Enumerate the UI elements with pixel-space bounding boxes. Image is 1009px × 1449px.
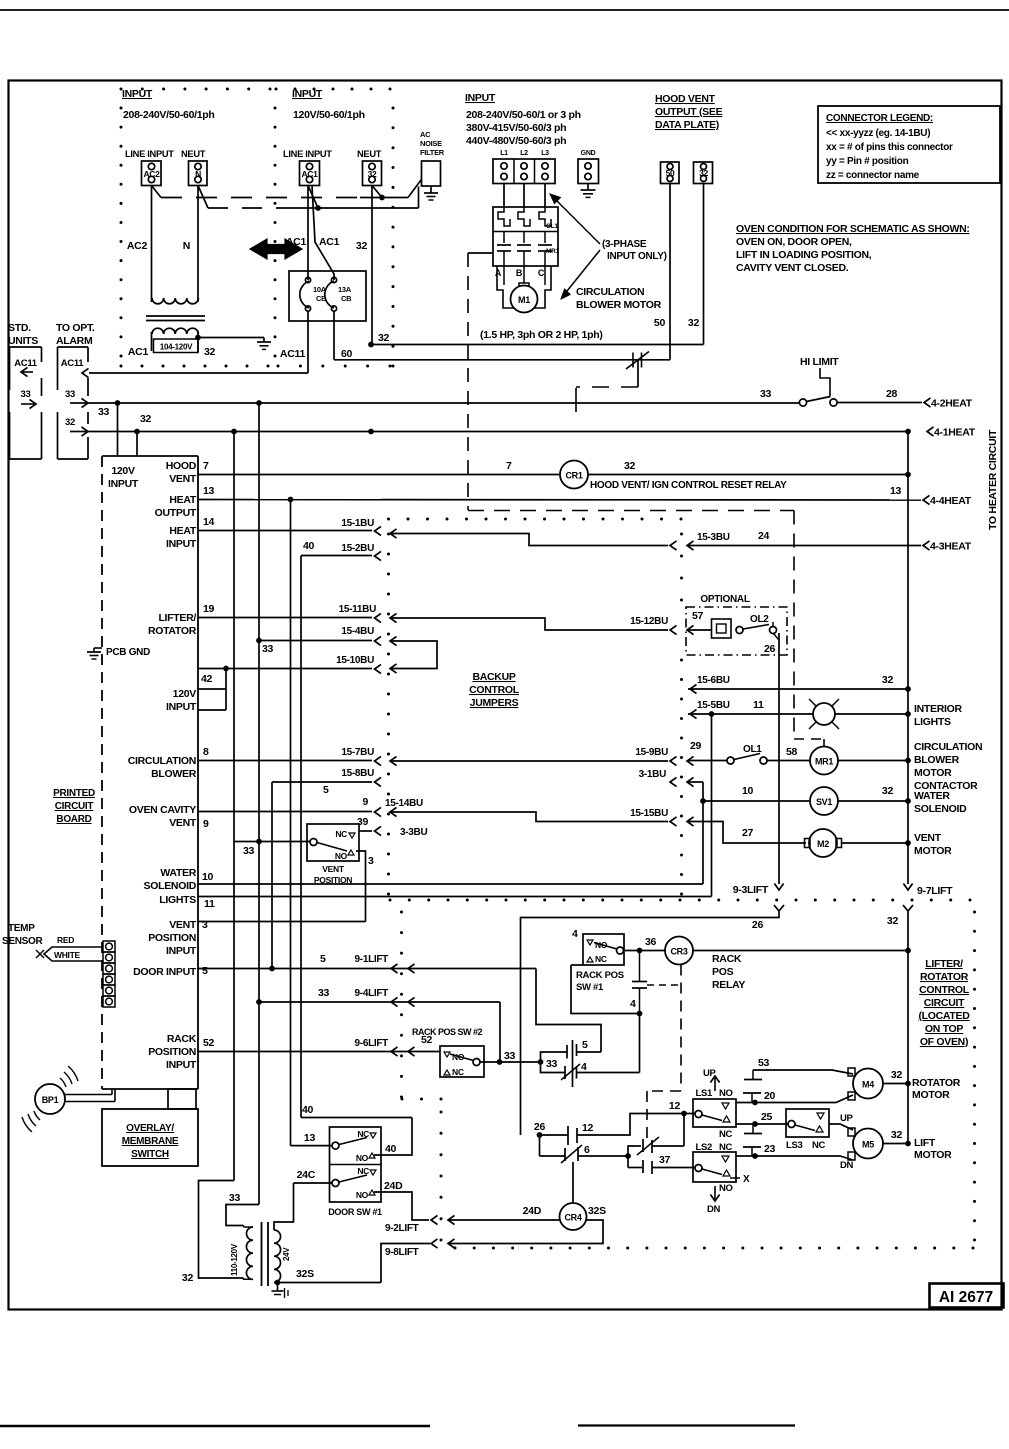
node 32-neutral on row A [379, 195, 385, 201]
wire 15-5BU lamp row [688, 713, 813, 715]
svg-text:33: 33 [243, 845, 255, 857]
arrow AC11 std [21, 367, 28, 376]
svg-text:CIRCUIT: CIRCUIT [924, 997, 965, 1009]
svg-text:50: 50 [666, 168, 675, 178]
svg-text:40: 40 [303, 540, 315, 552]
svg-text:M5: M5 [862, 1140, 874, 1150]
hood vent field-wiring break [632, 353, 634, 368]
svg-text:3: 3 [368, 855, 374, 867]
svg-text:DOOR SW #1: DOOR SW #1 [328, 1207, 382, 1217]
svg-text:4: 4 [572, 928, 578, 940]
svg-text:24V: 24V [282, 1247, 291, 1261]
transformer T1 primary 208-240V winding [152, 298, 198, 304]
svg-text:N: N [183, 240, 190, 252]
svg-text:L2: L2 [520, 150, 528, 157]
svg-text:BLOWER: BLOWER [914, 754, 960, 766]
svg-text:GND: GND [581, 150, 596, 157]
vent position switch box [307, 824, 359, 861]
wire 53 to M4 [753, 1070, 853, 1074]
cam 53 [744, 1079, 762, 1081]
node lamp lights drop [709, 711, 715, 717]
svg-text:SENSOR: SENSOR [2, 936, 44, 947]
svg-text:INPUT: INPUT [166, 701, 197, 713]
wire 32 to T2 primary bottom [199, 1181, 244, 1279]
svg-text:3-1BU: 3-1BU [639, 769, 666, 780]
svg-text:NC: NC [335, 829, 347, 839]
wire 15-3BU to 4-3HEAT [688, 545, 921, 547]
svg-text:NEUT: NEUT [357, 149, 382, 159]
svg-text:15-14BU: 15-14BU [385, 798, 423, 809]
svg-text:32: 32 [204, 346, 216, 358]
svg-text:32: 32 [887, 915, 899, 927]
wire 120V input stub b [198, 709, 226, 711]
arrowhead 15-2BU [375, 551, 382, 560]
arrowhead AC11 into alarm bracket [82, 368, 89, 377]
svg-text:20: 20 [764, 1090, 776, 1102]
svg-text:UP: UP [840, 1113, 854, 1124]
page top rule [0, 9, 1009, 11]
svg-text:RACK POS: RACK POS [576, 970, 624, 981]
wire LS1 common drop [683, 1114, 685, 1147]
wire 9-1LIFT to cam 5 [536, 969, 601, 1053]
svg-text:5: 5 [323, 784, 329, 796]
svg-text:L3: L3 [541, 150, 549, 157]
svg-text:FILTER: FILTER [420, 148, 445, 157]
svg-text:110-120V: 110-120V [230, 1243, 239, 1276]
svg-text:15-11BU: 15-11BU [339, 604, 376, 615]
wire A to motor [503, 266, 505, 285]
svg-text:AC1: AC1 [301, 169, 318, 179]
wire MR1 to bus [838, 760, 908, 762]
svg-text:OL2: OL2 [750, 614, 769, 625]
svg-text:AI 2677: AI 2677 [939, 1289, 993, 1306]
hi-limit actuator zigzag [820, 368, 830, 396]
svg-text:HEAT: HEAT [169, 525, 196, 537]
svg-text:LIGHTS: LIGHTS [914, 716, 951, 728]
svg-text:32: 32 [688, 317, 700, 329]
node 33 vent position [256, 839, 262, 845]
wire L2 to contactor [523, 184, 525, 208]
svg-text:HOOD: HOOD [166, 460, 197, 472]
dotted border backup control jumpers box [387, 518, 390, 521]
bottom rule right [578, 1424, 795, 1426]
wire 9-4LIFT drop to rack switch 2 [499, 1002, 501, 1062]
svg-text:37: 37 [659, 1154, 671, 1166]
svg-text:WATER: WATER [160, 867, 196, 879]
wire 15-8BU vertical to door input [271, 782, 273, 969]
cam 6 slash contact [539, 1135, 541, 1156]
svg-text:208-240V/50-60/1ph: 208-240V/50-60/1ph [123, 109, 215, 121]
svg-text:HOOD VENT: HOOD VENT [655, 93, 716, 105]
svg-text:DOOR INPUT: DOOR INPUT [133, 966, 197, 978]
svg-text:6: 6 [584, 1144, 590, 1156]
svg-text:X: X [743, 1174, 750, 1185]
svg-text:LIFTER/: LIFTER/ [925, 958, 963, 970]
jumper 15-11BU to 15-12BU [390, 613, 397, 622]
svg-text:9: 9 [203, 818, 209, 830]
svg-text:52: 52 [203, 1037, 215, 1049]
svg-text:A: A [495, 268, 502, 278]
wire M2 to bus [842, 842, 909, 844]
cam 37 contact [627, 1156, 629, 1168]
wire lifter/rotator 19 row [198, 617, 372, 619]
arrowhead 15-3BU pair [670, 541, 677, 550]
svg-text:SV1: SV1 [816, 797, 832, 807]
svg-text:HI LIMIT: HI LIMIT [800, 356, 839, 368]
svg-text:15-1BU: 15-1BU [341, 518, 374, 529]
arrowhead 15-4BU [375, 636, 382, 645]
svg-text:AC2: AC2 [143, 169, 160, 179]
svg-text:OL1: OL1 [546, 223, 558, 230]
svg-text:33: 33 [229, 1192, 241, 1204]
arrowhead 3-3BU [375, 826, 382, 835]
svg-text:60: 60 [341, 348, 353, 360]
wire vent position common [234, 841, 310, 843]
arrowhead 9-7LIFT down [903, 884, 912, 891]
svg-text:32: 32 [368, 169, 377, 179]
node 25 [752, 1121, 758, 1127]
jumper 15-4BU to 15-10BU [390, 636, 397, 645]
wire 10A CB to AC11 alarm line [307, 311, 309, 373]
svg-text:N: N [195, 169, 201, 179]
svg-text:B: B [516, 268, 523, 278]
arrowhead 15-14BU [375, 807, 382, 816]
svg-text:39: 39 [357, 816, 369, 828]
svg-text:104-120V: 104-120V [160, 343, 193, 352]
arrowhead 15-10BU [375, 664, 382, 673]
node 12 LS1 [681, 1111, 687, 1117]
svg-text:OVEN ON, DOOR OPEN,: OVEN ON, DOOR OPEN, [736, 236, 852, 248]
svg-text:BOARD: BOARD [56, 814, 91, 825]
wire CR4 coil drop [572, 1162, 574, 1203]
relay CR1 [560, 461, 588, 489]
OPTIONAL dash-dot box [686, 607, 787, 655]
node 36 [637, 948, 643, 954]
wire 9-4LIFT row [259, 1001, 500, 1003]
node 6 junction [625, 1153, 631, 1159]
wire 15-6BU row [688, 688, 908, 690]
svg-text:INTERIOR: INTERIOR [914, 703, 962, 715]
wire 4 drop to slash cam [639, 1014, 641, 1073]
relay coil MR1 [810, 747, 838, 775]
node 33 to PCB [115, 400, 121, 406]
right bus vertical upper [907, 432, 909, 885]
transformer T1 secondary 104-120V winding [152, 328, 198, 334]
svg-text:33: 33 [262, 643, 274, 655]
svg-text:NC: NC [719, 1129, 733, 1140]
wire 24D from door NO2 [374, 1192, 429, 1220]
rack pos switch 1 box [583, 934, 624, 965]
interior lights lamp [813, 703, 835, 725]
svg-text:40: 40 [385, 1143, 397, 1155]
svg-text:CR3: CR3 [670, 947, 687, 957]
rack pos sw1 contact [617, 947, 624, 954]
svg-text:12: 12 [669, 1100, 681, 1112]
wire pin7 to CR1 [198, 474, 560, 476]
PCB ground symbol [94, 647, 102, 649]
arrow up LS1 [714, 1078, 716, 1091]
svg-text:xx = # of pins this connector: xx = # of pins this connector [826, 142, 953, 153]
contactor MR1 contacts [503, 232, 505, 244]
cam 5 contact [541, 1052, 568, 1062]
svg-text:13: 13 [304, 1132, 316, 1144]
arrowhead 9-3LIFT down [774, 884, 783, 891]
svg-text:15-3BU: 15-3BU [697, 532, 730, 543]
node 32 at CB out [368, 342, 374, 348]
node 33 bus to backup rows [256, 400, 262, 406]
drawing number box AI 2677 [930, 1284, 1004, 1308]
svg-text:33: 33 [760, 388, 772, 400]
svg-text:INPUT: INPUT [465, 92, 496, 104]
svg-text:120V: 120V [111, 465, 135, 477]
transformer T1 core [146, 315, 205, 317]
svg-text:15-7BU: 15-7BU [341, 747, 374, 758]
svg-text:ROTATOR: ROTATOR [148, 625, 197, 637]
svg-text:MOTOR: MOTOR [912, 1089, 950, 1101]
wire 33 vertical long drop [258, 403, 260, 1205]
svg-text:L1: L1 [500, 150, 508, 157]
node 42 junction [223, 666, 229, 672]
jumper 8 row through backup box [390, 756, 397, 765]
arrow 32 alarm out [70, 431, 86, 433]
svg-text:15-6BU: 15-6BU [697, 675, 730, 686]
node 32 bus to transformer drop [231, 429, 237, 435]
svg-text:CIRCULATION: CIRCULATION [914, 741, 982, 753]
rack pos sw1 NO [587, 940, 593, 945]
svg-text:13A: 13A [338, 285, 352, 294]
arrowhead 15-11BU [375, 613, 382, 622]
svg-text:INPUT ONLY): INPUT ONLY) [607, 251, 667, 262]
cam 4 slash contact [541, 1062, 566, 1073]
wire 23 to M5 [755, 1156, 853, 1160]
svg-text:5: 5 [582, 1039, 588, 1051]
wire L3 to contactor [544, 184, 546, 208]
OL2 heater element [712, 619, 732, 638]
wire C to motor [544, 266, 546, 285]
wire N to transformer primary [197, 186, 199, 299]
arrowhead 4-3HEAT [923, 541, 930, 550]
svg-text:INPUT: INPUT [166, 1059, 197, 1071]
wire 3-1BU stub [688, 781, 703, 783]
svg-text:58: 58 [786, 746, 798, 758]
node AC1 on row B [315, 205, 321, 211]
node 32 bus neutral feed [368, 429, 374, 435]
svg-text:120V/50-60/1ph: 120V/50-60/1ph [293, 109, 365, 121]
svg-text:120V: 120V [173, 688, 197, 700]
terminal block L1 L2 L3 [493, 159, 555, 184]
svg-text:23: 23 [764, 1143, 776, 1155]
node M2 bus [905, 840, 911, 846]
svg-text:MOTOR: MOTOR [914, 767, 952, 779]
wire LS2 NC to M5 dn [736, 1155, 755, 1157]
arrow to motor [563, 250, 600, 296]
svg-text:9-3LIFT: 9-3LIFT [733, 884, 769, 896]
node 15-6BU bus [905, 686, 911, 692]
svg-text:zz = connector name: zz = connector name [826, 170, 920, 181]
cam 12b slash contact [628, 1146, 641, 1156]
wire neutral crossover row B (dashed) [198, 186, 208, 209]
wire 15-4BU row [259, 640, 372, 642]
svg-text:UNITS: UNITS [8, 335, 38, 347]
svg-text:CONTROL: CONTROL [469, 684, 520, 696]
limit switch LS3 box [786, 1109, 829, 1137]
svg-text:MOTOR: MOTOR [914, 845, 952, 857]
door switch 1 box [330, 1127, 382, 1202]
wire B to motor [523, 266, 525, 283]
svg-text:VENT: VENT [914, 832, 942, 844]
wire AC1 diag to row B [308, 186, 318, 209]
svg-text:DATA PLATE): DATA PLATE) [655, 119, 719, 131]
arrowhead 15-15BU pair [670, 817, 677, 826]
svg-text:NO: NO [335, 851, 348, 861]
svg-text:NEUT: NEUT [181, 149, 206, 159]
svg-text:CONNECTOR LEGEND:: CONNECTOR LEGEND: [826, 113, 933, 124]
svg-text:DN: DN [707, 1204, 721, 1215]
svg-text:OUTPUT (SEE: OUTPUT (SEE [655, 106, 723, 118]
motor M1 cradle [497, 266, 551, 308]
bracket STD UNITS [9, 347, 11, 390]
svg-text:AC1: AC1 [128, 346, 149, 358]
svg-text:RED: RED [57, 935, 74, 945]
svg-text:INPUT: INPUT [292, 88, 323, 100]
svg-text:SOLENOID: SOLENOID [144, 880, 197, 892]
svg-text:4-3HEAT: 4-3HEAT [930, 541, 972, 553]
wire 15-8BU row [272, 781, 372, 783]
wire AC1 to 13A CB [312, 186, 334, 281]
svg-text:CIRCUIT: CIRCUIT [55, 801, 94, 812]
overload OL1 elements [498, 207, 510, 226]
arrowhead 15-6BU [690, 684, 697, 693]
svg-text:MEMBRANE: MEMBRANE [122, 1136, 179, 1147]
dashed link cam4 to CR3 [647, 984, 679, 986]
rack pos sw2 NO [444, 1052, 450, 1057]
jumper 15-14BU to 15-15BU [390, 807, 397, 816]
svg-text:VENT: VENT [322, 864, 345, 874]
svg-text:RELAY: RELAY [712, 979, 745, 991]
svg-text:POSITION: POSITION [148, 1046, 196, 1058]
svg-text:WHITE: WHITE [54, 950, 81, 960]
T2 core [261, 1222, 263, 1286]
wire 32 bus row [88, 431, 908, 433]
wire sw2 to 33 junctions [480, 1061, 541, 1063]
wire 33 bus row [88, 402, 799, 404]
svg-text:9-6LIFT: 9-6LIFT [355, 1038, 389, 1049]
arrowhead 15-7BU [375, 756, 382, 765]
svg-text:INPUT: INPUT [166, 538, 197, 550]
bracket TO OPT ALARM [57, 347, 59, 390]
svg-text:OPTIONAL: OPTIONAL [700, 594, 749, 605]
wire BP1 to PCB [65, 1094, 112, 1096]
node 20 [752, 1100, 758, 1106]
svg-text:OL1: OL1 [743, 744, 762, 755]
svg-text:11: 11 [204, 898, 215, 910]
wire 15-15BU to vent motor M2 [688, 822, 806, 844]
wire M5 to bus [883, 1143, 908, 1145]
svg-text:RACK: RACK [167, 1033, 197, 1045]
wire door input 5 row [198, 968, 536, 970]
node 33 cam [538, 1059, 544, 1065]
svg-text:9-7LIFT: 9-7LIFT [917, 885, 953, 897]
svg-text:CR4: CR4 [564, 1213, 581, 1223]
connector 9-8LIFT [448, 1239, 455, 1248]
arrowhead 15-9BU pair [670, 756, 677, 765]
svg-text:36: 36 [645, 936, 657, 948]
wire vent position NO to pin3 drop [356, 851, 366, 922]
node sw2 out [497, 1059, 503, 1065]
svg-text:M4: M4 [862, 1080, 874, 1090]
svg-text:9-4LIFT: 9-4LIFT [355, 988, 389, 999]
wire lights 11 row [198, 896, 712, 898]
node M5 bus [905, 1141, 911, 1147]
svg-text:INPUT: INPUT [122, 88, 153, 100]
svg-text:LS1: LS1 [695, 1088, 713, 1099]
svg-text:4-4HEAT: 4-4HEAT [930, 495, 972, 507]
node 32 to PCB [134, 429, 140, 435]
wire 13 to door sw common [291, 1145, 333, 1147]
arrowhead 15-1BU [375, 526, 382, 535]
svg-text:10: 10 [742, 785, 754, 797]
svg-text:7: 7 [506, 460, 512, 472]
relay CR4 [560, 1203, 587, 1230]
wire 13 vertical drop [290, 500, 292, 1146]
svg-text:5: 5 [202, 965, 208, 977]
svg-text:CR1: CR1 [565, 471, 582, 481]
svg-text:CAVITY VENT CLOSED.: CAVITY VENT CLOSED. [736, 262, 849, 274]
rack pos sw1 NC [587, 957, 593, 962]
svg-text:POS: POS [712, 966, 734, 978]
wire CR3 to bus [693, 950, 908, 952]
node lamp bus [905, 711, 911, 717]
svg-text:AC2: AC2 [127, 240, 148, 252]
wire AC1 to 10A CB [307, 186, 309, 281]
svg-text:52: 52 [421, 1034, 433, 1046]
node 26 cam [537, 1132, 543, 1138]
wire rack position 52 row [198, 1051, 440, 1053]
arrowhead 4-1HEAT [927, 427, 934, 436]
wire 24C to door sw pole2 [294, 1182, 333, 1184]
wire OL2 26 drop 9-3LIFT [778, 633, 780, 884]
svg-text:32: 32 [882, 785, 894, 797]
PCB edge connector strip [103, 941, 115, 952]
svg-text:3: 3 [202, 919, 208, 931]
svg-text:26: 26 [764, 643, 776, 655]
arrowhead 9-1LIFT pair [391, 964, 398, 973]
svg-text:POSITION: POSITION [148, 932, 196, 944]
svg-text:10: 10 [202, 871, 214, 883]
svg-text:BACKUP: BACKUP [472, 671, 515, 683]
svg-text:CIRCULATION: CIRCULATION [576, 286, 644, 298]
svg-text:RACK: RACK [712, 953, 742, 965]
svg-text:15-5BU: 15-5BU [697, 700, 730, 711]
svg-text:32: 32 [624, 460, 636, 472]
node SV1 from 3-1BU and 10 [700, 798, 706, 804]
dashed link CR3 down [680, 965, 682, 1092]
node 13 door-switch drop [288, 497, 294, 503]
svg-text:MOTOR: MOTOR [914, 1149, 952, 1161]
svg-text:NC: NC [357, 1129, 369, 1139]
wire hi-limit to 4-2HEAT [837, 402, 922, 404]
rack pos sw2 NC [444, 1070, 450, 1075]
svg-text:24C: 24C [297, 1169, 316, 1181]
svg-text:OVERLAY/: OVERLAY/ [126, 1123, 174, 1134]
wire 3-3BU stub [359, 830, 372, 832]
svg-text:15-8BU: 15-8BU [341, 768, 374, 779]
wire SV1 to bus [838, 800, 908, 802]
lift motor M5 [853, 1129, 883, 1159]
svg-text:LIFTER/: LIFTER/ [158, 612, 196, 624]
vent position switch [310, 839, 317, 846]
breaker 13A CB [325, 281, 334, 308]
